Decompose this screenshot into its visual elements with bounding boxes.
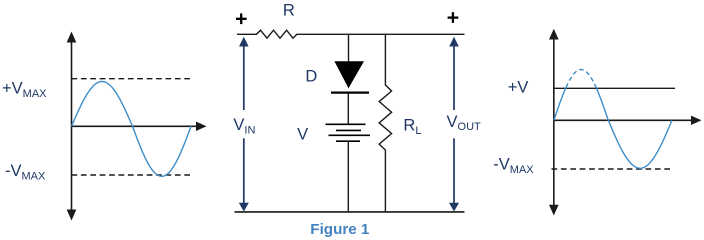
left input sine wave	[72, 82, 192, 177]
left graph vertical axis	[67, 32, 77, 221]
svg-text:VIN: VIN	[233, 116, 255, 136]
battery V plates	[326, 124, 371, 141]
svg-text:+V: +V	[508, 79, 529, 97]
left graph +Vmax dashed level line	[72, 78, 191, 80]
wire battery to bottom rail	[347, 141, 349, 212]
svg-text:D: D	[305, 67, 317, 85]
left graph horizontal axis	[72, 122, 207, 131]
svg-text:V: V	[297, 125, 308, 143]
right graph vertical axis	[549, 29, 559, 216]
bottom rail wire	[235, 211, 465, 213]
Vout arrow lower segment	[449, 138, 459, 211]
svg-text:Figure 1: Figure 1	[310, 221, 370, 238]
diode D (filled triangle + cathode bar)	[334, 61, 364, 88]
-Vmax dashed level line (right)	[552, 168, 672, 170]
top rail wire with resistor R zigzag	[237, 30, 465, 38]
svg-text:+VMAX: +VMAX	[2, 80, 47, 100]
wire diode to battery	[347, 94, 349, 125]
plus sign top-left	[236, 13, 247, 24]
svg-text:-VMAX: -VMAX	[493, 156, 534, 176]
+V clipping level solid line	[554, 87, 675, 89]
output wave solid falling + negative half	[597, 88, 673, 168]
left graph -Vmax dashed level line	[72, 174, 192, 176]
plus sign top-right	[448, 12, 459, 23]
output wave solid rising part	[554, 87, 566, 120]
svg-text:-VMAX: -VMAX	[5, 162, 46, 182]
load resistor RL branch: top wire, zigzag, bottom wire	[379, 34, 391, 212]
Vout arrow upper segment	[449, 37, 459, 110]
Vin arrow lower segment	[239, 138, 249, 211]
svg-text:R: R	[283, 2, 295, 20]
svg-text:RL: RL	[403, 117, 421, 137]
Vin arrow upper segment	[239, 37, 249, 110]
output wave clipped peak (dashed)	[566, 70, 597, 89]
diode branch top wire	[348, 34, 350, 61]
svg-text:VOUT: VOUT	[447, 113, 482, 133]
right graph horizontal axis	[554, 116, 702, 125]
